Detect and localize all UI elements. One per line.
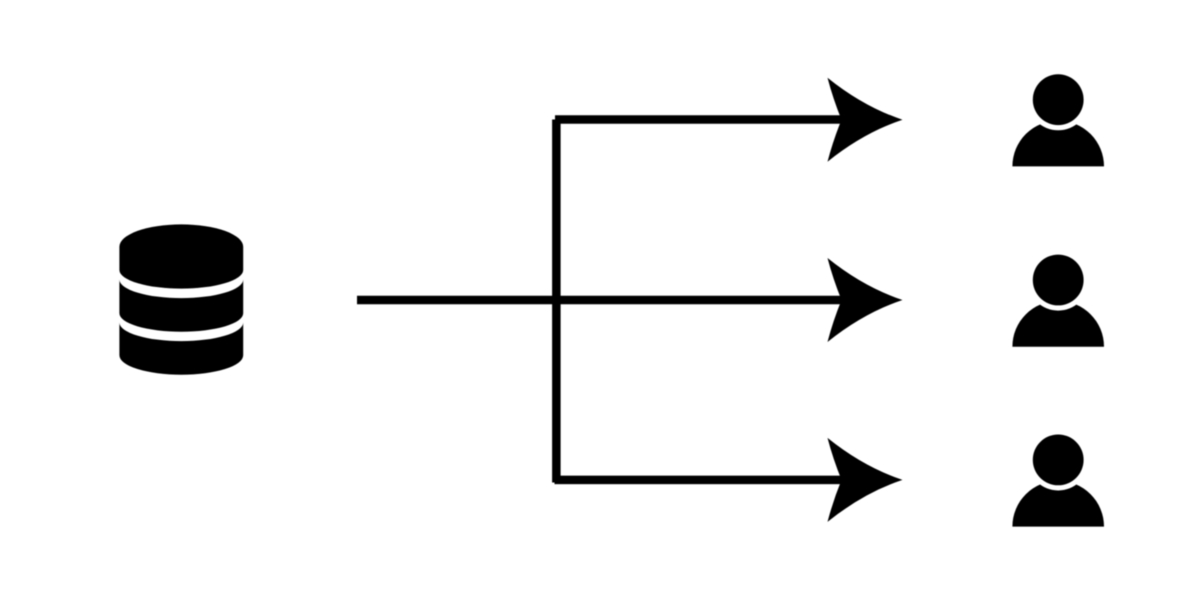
user U2 [1012,249,1104,346]
database DB1 bottom band [119,323,243,375]
user U1 body [1012,121,1104,167]
user U3 body [1012,481,1104,527]
user U2 head gap ring [1028,249,1089,310]
user U2 body [1012,301,1104,347]
arrowhead A2 (middle) [828,258,903,342]
user U3 [1012,429,1104,526]
user U1 head [1033,74,1084,125]
wire: top branch horizontal [555,115,845,124]
user U1 [1012,69,1104,166]
user U3 head [1033,435,1084,486]
wire: vertical fan-out bus [552,120,561,483]
database DB1 middle band [119,280,243,332]
user U2 head [1033,255,1084,306]
user U1 head gap ring [1028,69,1089,130]
database DB1 [119,224,243,374]
wire: main horizontal from database [357,296,847,305]
database DB1 top cylinder [119,224,243,288]
arrowhead A3 (bottom) [828,438,903,522]
arrowhead A1 (top) [828,78,903,162]
wire: bottom branch horizontal [555,476,845,485]
user U3 head gap ring [1028,429,1089,490]
